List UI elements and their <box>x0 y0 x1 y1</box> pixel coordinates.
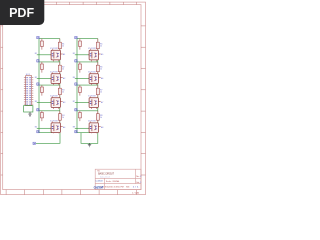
svg-text:N1: N1 <box>35 53 37 55</box>
svg-text:IC2 PC817: IC2 PC817 <box>50 72 59 74</box>
svg-text:1k: 1k <box>100 69 102 71</box>
svg-text:N6: N6 <box>73 77 75 79</box>
ground GND1 <box>28 112 31 116</box>
frame column ticks <box>6 2 137 195</box>
opto-isolator IC5 body <box>89 50 98 60</box>
svg-text:N5: N5 <box>73 53 75 55</box>
svg-text:IC5 PC817: IC5 PC817 <box>88 48 97 50</box>
resistor R2b <box>59 62 61 74</box>
pin numbers IC7 <box>90 101 97 104</box>
wire: IC1 pin stubs <box>54 60 59 62</box>
svg-text:N4: N4 <box>35 127 37 129</box>
pin numbers IC1 <box>52 53 59 56</box>
wire: IC8 output stub <box>98 126 100 128</box>
svg-text:A5: A5 <box>101 53 103 56</box>
svg-text:IC1 PC817: IC1 PC817 <box>50 48 59 50</box>
resistor R3b <box>59 85 61 97</box>
wire: IC8 pin stubs <box>92 132 97 135</box>
svg-text:Sh:: Sh: <box>126 186 131 188</box>
wire: IC6 anode stub <box>90 72 92 74</box>
wire: IC3 output stub <box>60 101 62 103</box>
wire: stage IC6 input net <box>75 77 89 79</box>
resistor R8b <box>97 111 99 123</box>
svg-text:N7: N7 <box>73 101 75 103</box>
connector SV1 pin names <box>26 76 28 79</box>
opto-isolator IC4 body <box>51 123 60 133</box>
wire: IC8 anode stub <box>90 121 92 123</box>
svg-text:1k: 1k <box>62 69 64 71</box>
svg-text:IC4 PC817: IC4 PC817 <box>50 121 59 123</box>
svg-text:1k: 1k <box>62 117 64 119</box>
junction markers column 1 <box>37 36 39 38</box>
svg-text:basic_ckt.sch: basic_ckt.sch <box>100 175 110 178</box>
wire: IC1 output stub <box>60 53 62 55</box>
wire: IC2 pin stubs <box>54 83 59 85</box>
frame row ticks <box>1 26 146 175</box>
wire: IC2 anode stub <box>52 72 54 74</box>
svg-text:CadSoft: CadSoft <box>94 186 104 190</box>
pin numbers IC5 <box>90 53 97 56</box>
wire: column 2 supply rails <box>77 39 98 133</box>
title block frame <box>95 169 141 189</box>
pin numbers IC8 <box>90 126 97 129</box>
optocoupler stage IC5 <box>73 39 104 62</box>
svg-text:Date: 8/10/2015 3:48:40 PM: Date: 8/10/2015 3:48:40 PM <box>100 185 124 188</box>
optocoupler stage IC7 <box>73 85 104 109</box>
PDF badge overlay <box>0 0 44 25</box>
svg-text:PDF: PDF <box>9 6 34 20</box>
opto-isolator IC7 body <box>89 98 98 108</box>
svg-text:A7: A7 <box>101 101 103 104</box>
opto-isolator IC6 body <box>89 74 98 84</box>
resistor R1b <box>59 39 61 51</box>
svg-text:1k: 1k <box>100 92 102 94</box>
resistor R5a <box>79 39 81 50</box>
frame outer border <box>1 2 146 195</box>
svg-text:A4: A4 <box>63 126 65 129</box>
wire: IC3 pin stubs <box>54 107 59 109</box>
wire: column 1 return net <box>36 133 60 144</box>
svg-text:N2: N2 <box>35 77 37 79</box>
ground GND2 <box>88 143 91 147</box>
wire: stage IC7 input net <box>75 101 89 103</box>
frame inner border <box>3 5 141 190</box>
resistor R2a <box>41 62 43 73</box>
wire: connector ground loop <box>24 106 33 112</box>
wire: stage IC5 input net <box>75 54 89 56</box>
svg-text:BASIC CIRCUIT: BASIC CIRCUIT <box>98 172 114 176</box>
svg-text:N3: N3 <box>35 101 37 103</box>
svg-text:1k: 1k <box>62 46 64 48</box>
wire: IC1 anode stub <box>52 49 54 51</box>
wire: IC6 pin stubs <box>92 83 97 85</box>
wire: IC7 output stub <box>98 101 100 103</box>
wire: IC5 output stub <box>98 53 100 55</box>
wire: IC5 anode stub <box>90 49 92 51</box>
svg-text:A6: A6 <box>101 77 103 80</box>
resistor R4b <box>59 111 61 123</box>
resistor R7b <box>97 85 99 97</box>
svg-text:A3: A3 <box>63 101 65 104</box>
resistor R6a <box>79 62 81 73</box>
wire: IC4 pin stubs <box>54 132 59 135</box>
svg-text:IC3 PC817: IC3 PC817 <box>50 96 59 98</box>
wire: stage IC3 input net <box>37 101 51 103</box>
connector SV1 pin stubs <box>24 78 33 104</box>
optocoupler stage IC8 <box>73 111 104 134</box>
junction marker column 1 return <box>33 142 35 144</box>
junction markers column 2 <box>75 36 77 38</box>
wire: IC3 anode stub <box>52 96 54 98</box>
opto-isolator IC3 body <box>51 98 60 108</box>
optocoupler stage IC1 <box>35 39 66 62</box>
wire: column 1 supply rails <box>39 39 60 133</box>
resistor R8a <box>79 111 81 121</box>
resistor R6b <box>97 62 99 74</box>
optocoupler stage IC2 <box>35 62 66 85</box>
optocoupler stage IC3 <box>35 85 66 109</box>
svg-text:1k: 1k <box>100 46 102 48</box>
wire: IC6 output stub <box>98 77 100 79</box>
svg-text:IC6 PC817: IC6 PC817 <box>88 72 97 74</box>
pin numbers IC2 <box>52 77 59 80</box>
wire: IC7 pin stubs <box>92 107 97 109</box>
wire: IC5 pin stubs <box>92 60 97 62</box>
svg-text:N8: N8 <box>73 127 75 129</box>
svg-text:A2: A2 <box>63 77 65 80</box>
svg-text:IC7 PC817: IC7 PC817 <box>88 96 97 98</box>
svg-text:IC8 PC817: IC8 PC817 <box>88 121 97 123</box>
pin numbers IC3 <box>52 101 59 104</box>
svg-text:CadSoft: CadSoft <box>95 179 103 182</box>
wire: stage IC4 input net <box>37 127 51 129</box>
wire: IC4 output stub <box>60 126 62 128</box>
optocoupler stage IC6 <box>73 62 104 85</box>
opto-isolator IC2 body <box>51 74 60 84</box>
wire: IC2 output stub <box>60 77 62 79</box>
resistor R4a <box>41 111 43 121</box>
svg-text:1k: 1k <box>62 92 64 94</box>
optocoupler stage IC4 <box>35 111 66 134</box>
wire: stage IC2 input net <box>37 77 51 79</box>
resistor R7a <box>79 85 81 96</box>
svg-text:1 / 1 A4: 1 / 1 A4 <box>132 192 140 195</box>
wire: stage IC1 input net <box>37 54 51 56</box>
svg-text:A1: A1 <box>63 53 65 56</box>
svg-text:ORIGINAL: ORIGINAL <box>112 180 120 183</box>
svg-text:1k: 1k <box>100 117 102 119</box>
connector SV1 body <box>26 76 32 106</box>
pin numbers IC6 <box>90 77 97 80</box>
wire: IC7 anode stub <box>90 96 92 98</box>
wire: ground bus column 2 <box>81 133 98 144</box>
svg-text:A8: A8 <box>101 126 103 129</box>
resistor R3a <box>41 85 43 96</box>
opto-isolator IC8 body <box>89 123 98 133</box>
wire: IC4 anode stub <box>52 121 54 123</box>
svg-text:Scale:: Scale: <box>106 181 112 183</box>
resistor R1a <box>41 39 43 50</box>
opto-isolator IC1 body <box>51 50 60 60</box>
wire: stage IC8 input net <box>75 127 89 129</box>
pin numbers IC4 <box>52 126 59 129</box>
resistor R5b <box>97 39 99 51</box>
